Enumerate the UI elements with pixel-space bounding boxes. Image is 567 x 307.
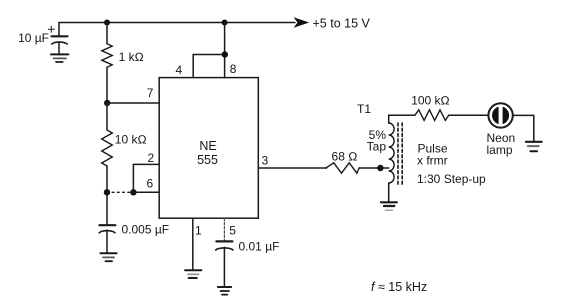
wire: lamp to ground bbox=[513, 115, 534, 141]
capacitor C 0.01uF bbox=[216, 241, 233, 286]
node: junction pin2/pin6 bbox=[130, 189, 136, 195]
svg-text:0.01 µF: 0.01 µF bbox=[239, 240, 280, 254]
arrow: supply arrowhead bbox=[294, 17, 310, 28]
wire: pin 4 bbox=[193, 55, 224, 78]
ground under pin 1 bbox=[185, 270, 201, 278]
svg-text:10 kΩ: 10 kΩ bbox=[115, 133, 147, 147]
svg-text:0.005 µF: 0.005 µF bbox=[122, 223, 170, 237]
node: junction R2/C2/pin6 bbox=[104, 189, 110, 195]
wire: dotted link pin6 bbox=[107, 191, 133, 193]
wire: pin 8 bbox=[224, 23, 226, 78]
svg-text:100 kΩ: 100 kΩ bbox=[411, 94, 450, 108]
ground under 0.005uF bbox=[100, 253, 116, 261]
transformer T1 core bbox=[398, 123, 402, 186]
svg-text:Tap: Tap bbox=[367, 140, 387, 154]
wire: pin 3 output bbox=[258, 167, 326, 169]
svg-text:x frmr: x frmr bbox=[417, 153, 448, 167]
resistor R 68 ohm bbox=[326, 163, 359, 173]
svg-text:6: 6 bbox=[147, 177, 154, 191]
ground under transformer bbox=[381, 202, 397, 210]
ground under 10uF bbox=[51, 54, 68, 62]
node: pin4/pin8 junction bbox=[222, 51, 228, 57]
op-amp U1 NE555 box bbox=[159, 78, 258, 219]
svg-text:7: 7 bbox=[147, 86, 154, 100]
svg-text:4: 4 bbox=[176, 63, 183, 77]
svg-text:T1: T1 bbox=[357, 102, 371, 116]
wire: pin 1 bbox=[192, 218, 194, 270]
wire: 100k to lamp bbox=[449, 114, 489, 116]
wire: transformer top to lamp bbox=[389, 114, 415, 116]
plus sign of 10uF bbox=[48, 26, 54, 32]
wire: tap to winding bbox=[380, 167, 388, 169]
wire: pin 7 bbox=[107, 102, 159, 104]
svg-text:10 µF: 10 µF bbox=[18, 31, 49, 45]
capacitor C 0.005uF bbox=[99, 192, 115, 253]
svg-text:+5 to 15 V: +5 to 15 V bbox=[313, 17, 371, 31]
svg-text:1:30 Step-up: 1:30 Step-up bbox=[417, 172, 486, 186]
svg-text:5: 5 bbox=[229, 224, 236, 238]
transformer T1 winding bbox=[389, 115, 394, 202]
svg-text:lamp: lamp bbox=[487, 143, 513, 157]
node: 5% tap dot bbox=[377, 165, 383, 171]
node: supply rail junction at R1 bbox=[104, 20, 110, 26]
resistor R 10k bbox=[102, 103, 113, 192]
ground right of lamp bbox=[526, 142, 542, 151]
svg-text:8: 8 bbox=[230, 62, 237, 76]
svg-text:555: 555 bbox=[197, 153, 218, 167]
wire: pin 2 bbox=[133, 164, 159, 192]
capacitor C 10uF bbox=[48, 23, 67, 55]
neon lamp bbox=[488, 103, 512, 127]
ground under 0.01uF bbox=[218, 287, 231, 295]
svg-text:1 kΩ: 1 kΩ bbox=[119, 50, 144, 64]
svg-text:3: 3 bbox=[262, 154, 269, 168]
wire: +V supply rail bbox=[59, 22, 295, 24]
wire: 68ohm to tap bbox=[359, 167, 380, 169]
svg-text:2: 2 bbox=[148, 151, 155, 165]
node: supply rail junction at pin 8 bbox=[222, 20, 228, 26]
wire: pin 5 bbox=[223, 218, 225, 241]
node: junction R1/R2/pin7 bbox=[104, 100, 110, 106]
svg-text:f ≈ 15 kHz: f ≈ 15 kHz bbox=[371, 280, 427, 294]
resistor R 1k bbox=[102, 23, 112, 104]
svg-text:68 Ω: 68 Ω bbox=[332, 150, 358, 164]
wire: pin 6 to IC bbox=[133, 191, 159, 193]
svg-text:1: 1 bbox=[195, 224, 202, 238]
resistor R 100k bbox=[415, 110, 449, 121]
svg-text:NE: NE bbox=[199, 139, 216, 153]
